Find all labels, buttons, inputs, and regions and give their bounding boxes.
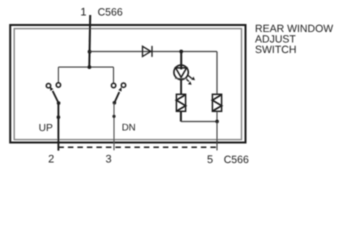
LED cathode bar bbox=[175, 77, 187, 79]
wire LED to resistor R1 bbox=[180, 79, 182, 94]
switch S1 UP lever arrowhead bbox=[50, 86, 53, 91]
switch S2 DN lever bbox=[114, 92, 119, 103]
switch S1 UP contact circle right bbox=[56, 83, 60, 87]
switch S2 DN contact circle right bbox=[121, 83, 125, 87]
svg-text:UP: UP bbox=[39, 123, 53, 134]
wire bottom horizontal bbox=[181, 121, 217, 123]
LED emission arrow 2 bbox=[186, 79, 191, 84]
wire pin 1 vertical bbox=[88, 15, 91, 67]
diode D1 triangle bbox=[143, 46, 151, 56]
wire UP switch stub bbox=[57, 67, 59, 83]
svg-text:3: 3 bbox=[105, 154, 111, 166]
wire top horizontal bbox=[90, 51, 217, 53]
wire pin 5 vertical bbox=[216, 122, 218, 151]
LED triangle bbox=[176, 68, 187, 78]
wire R2 bottom stub bbox=[216, 111, 218, 121]
resistor R2 body bbox=[212, 94, 221, 111]
svg-text:2: 2 bbox=[48, 154, 54, 166]
node dot on pin 3 wire bbox=[112, 115, 115, 118]
wire right branch vertical bbox=[216, 52, 218, 95]
svg-text:C566: C566 bbox=[98, 6, 123, 18]
diode D1 cathode bar bbox=[151, 46, 153, 57]
switch assembly outer box bbox=[10, 25, 245, 143]
svg-text:1: 1 bbox=[80, 6, 86, 18]
switch S1 UP contact circle left bbox=[46, 84, 50, 88]
wire pin 2 vertical bbox=[57, 103, 59, 151]
resistor R1 body bbox=[176, 94, 185, 111]
svg-text:DN: DN bbox=[122, 123, 136, 134]
wire DN switch stub bbox=[113, 67, 115, 83]
switch S2 pivot dot bbox=[113, 101, 117, 105]
resistor R1 winding bbox=[176, 95, 185, 112]
node dot on pin 2 wire bbox=[57, 115, 61, 119]
switch assembly inner box bbox=[14, 29, 241, 140]
svg-text:SWITCH: SWITCH bbox=[255, 44, 296, 56]
node junction pin1 / bus bbox=[88, 65, 92, 69]
node junction LED branch bbox=[179, 50, 183, 54]
resistor R2 winding bbox=[212, 95, 221, 112]
switch S2 DN lever arrowhead bbox=[118, 87, 121, 92]
LED indicator circle bbox=[174, 65, 188, 79]
wire switch bus horizontal bbox=[58, 66, 113, 68]
connector C566 dashed line bbox=[58, 146, 217, 148]
switch S1 UP lever bbox=[53, 91, 59, 103]
svg-text:5: 5 bbox=[207, 154, 213, 166]
wire R1 bottom stub bbox=[180, 111, 182, 121]
switch S2 DN contact circle left bbox=[111, 83, 115, 87]
wire LED anode stub bbox=[180, 52, 182, 70]
svg-text:C566: C566 bbox=[224, 154, 249, 166]
wire pin 3 vertical bbox=[113, 103, 115, 151]
node junction pin1 / top wire bbox=[88, 50, 92, 54]
node junction pin 5 bbox=[215, 120, 219, 124]
switch S1 pivot dot bbox=[57, 101, 61, 105]
LED emission arrow 1 bbox=[188, 75, 195, 80]
